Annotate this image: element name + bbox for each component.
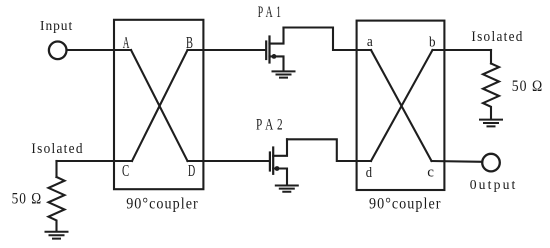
svg-text:c: c	[427, 165, 434, 181]
wire b-d diagonal	[371, 50, 433, 161]
svg-text:d: d	[366, 165, 373, 181]
transistor PA2 source arrow dot	[275, 166, 280, 171]
svg-text:Input: Input	[40, 19, 73, 34]
coupler box 2	[357, 21, 445, 190]
wire isolated to C	[57, 160, 133, 162]
wire B to PA1 gate	[188, 49, 266, 51]
wire c to output	[432, 160, 483, 163]
wire PA1 drain to a (step)	[284, 28, 372, 51]
coupler box 1	[114, 20, 203, 189]
wire input to A	[67, 49, 132, 51]
svg-text:90°coupler: 90°coupler	[369, 193, 442, 212]
wire B-C diagonal	[132, 50, 188, 161]
svg-text:90°coupler: 90°coupler	[126, 193, 199, 212]
svg-text:PA1: PA1	[258, 4, 285, 21]
svg-text:Isolated: Isolated	[31, 141, 83, 157]
svg-text:a: a	[367, 34, 373, 50]
transistor PA2 source stub	[273, 169, 287, 185]
svg-text:50 Ω: 50 Ω	[512, 77, 544, 95]
svg-text:D: D	[188, 161, 195, 180]
ground G1	[46, 232, 68, 239]
svg-text:Isolated: Isolated	[471, 29, 523, 45]
transistor PA1 drain stub	[270, 28, 284, 44]
svg-text:PA2: PA2	[256, 117, 287, 134]
svg-text:C: C	[122, 161, 129, 180]
transistor PA2 drain stub	[273, 139, 287, 156]
transistor PA1 source stub	[270, 56, 284, 69]
transistor PA2 channel bar	[272, 148, 274, 174]
svg-text:B: B	[186, 33, 193, 52]
transistor PA1 channel bar	[268, 37, 270, 63]
wire a-c diagonal	[371, 50, 432, 161]
input port circle	[49, 42, 67, 60]
ground G3	[480, 120, 502, 127]
svg-text:0utput: 0utput	[470, 178, 518, 193]
svg-text:50 Ω: 50 Ω	[12, 190, 43, 207]
ground G2 (PA1 source)	[273, 71, 295, 77]
resistor R1 50ohm lead	[55, 161, 57, 177]
resistor R2 50ohm lead	[490, 50, 492, 64]
ground G4 (PA2 source)	[276, 186, 298, 192]
transistor PA1 source arrow dot	[272, 54, 277, 59]
transistor PA1 gate bar	[265, 42, 267, 60]
resistor R1 50ohm zigzag	[49, 177, 65, 231]
svg-text:b: b	[429, 34, 436, 50]
transistor PA2 gate bar	[269, 153, 271, 171]
svg-text:A: A	[123, 33, 130, 52]
wire D to PA2 gate	[188, 160, 270, 162]
wire PA2 drain to d (step)	[287, 139, 371, 161]
wire A-D diagonal	[131, 50, 188, 161]
wire b to isolated resistor	[433, 49, 492, 51]
output port circle	[482, 154, 500, 172]
resistor R2 50ohm zigzag	[483, 64, 499, 119]
